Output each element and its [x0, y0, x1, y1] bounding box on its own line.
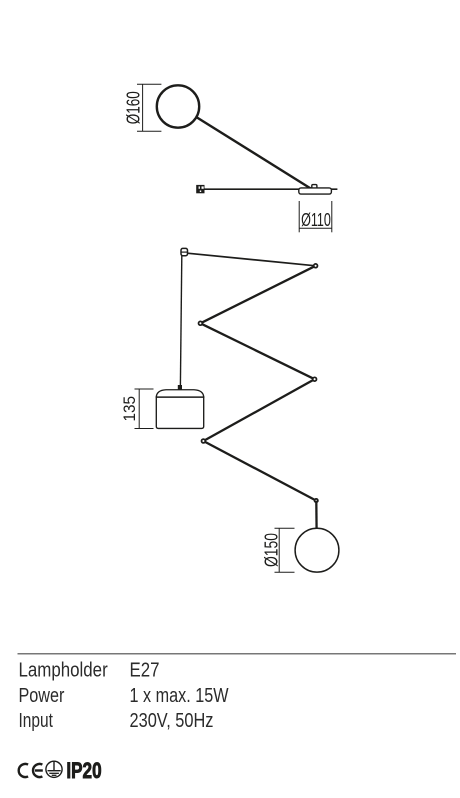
- canopy (top figure): [299, 188, 332, 194]
- svg-text:230V, 50Hz: 230V, 50Hz: [130, 710, 214, 732]
- node V4: [202, 439, 206, 443]
- svg-text:Ø110: Ø110: [301, 210, 331, 230]
- dimension 135 vertical line: [138, 389, 140, 429]
- hook (ceiling attachment): [181, 248, 188, 255]
- dimension 135 top tick: [135, 388, 154, 390]
- node V1: [314, 264, 318, 268]
- svg-text:Power: Power: [19, 685, 65, 707]
- lampshade drum body: [156, 397, 203, 428]
- svg-text:IP20: IP20: [66, 758, 101, 783]
- dimension Ø150 bottom tick: [275, 571, 295, 573]
- dimension 135 bottom tick: [135, 428, 154, 430]
- dimension Ø160 vertical line: [142, 84, 144, 131]
- bottom sphere: [295, 528, 339, 572]
- stem V5 to bottom sphere: [315, 501, 318, 530]
- earth symbol stem: [53, 762, 55, 771]
- zigzag wire V4-V5: [203, 441, 316, 501]
- svg-text:1 x max. 15W: 1 x max. 15W: [130, 685, 229, 707]
- cable hook to node V1: [187, 253, 315, 266]
- svg-text:Ø160: Ø160: [124, 91, 144, 124]
- sphere (top figure): [157, 85, 199, 127]
- CE mark letter C: [19, 764, 28, 777]
- earth symbol bar 3: [52, 774, 57, 776]
- node V5: [315, 499, 318, 502]
- svg-text:E27: E27: [130, 660, 160, 682]
- bump on canopy: [312, 185, 317, 189]
- dimension Ø150 vertical line: [278, 528, 280, 572]
- dimension Ø110 right extension line: [331, 201, 333, 232]
- zigzag wire V3-V4: [203, 379, 314, 441]
- svg-text:Input: Input: [19, 710, 54, 732]
- CE mark letter E: [33, 764, 42, 777]
- dimension Ø160 top tick: [137, 83, 161, 85]
- earth symbol bar 1: [48, 770, 61, 772]
- zigzag wire V2-V3: [200, 323, 314, 379]
- earth symbol bar 2: [49, 772, 59, 774]
- rod (top figure arm): [185, 110, 312, 189]
- dimension Ø110 line: [299, 227, 332, 229]
- node V2: [199, 321, 203, 325]
- zigzag wire V1-V2: [200, 266, 315, 324]
- node V3: [313, 377, 317, 381]
- earth symbol circle: [46, 761, 62, 777]
- vertical cable hook to shade: [180, 256, 181, 385]
- bar (top figure base): [198, 188, 337, 190]
- svg-text:Ø150: Ø150: [262, 533, 282, 567]
- footer rule: [18, 653, 457, 655]
- cable ferrule above shade: [178, 385, 182, 390]
- svg-text:Lampholder: Lampholder: [19, 660, 108, 682]
- lampshade drum dome: [156, 390, 203, 397]
- dimension Ø110 left extension line: [298, 201, 300, 232]
- dimension Ø160 bottom tick: [137, 130, 161, 132]
- dimension Ø150 top tick: [275, 527, 295, 529]
- svg-text:135: 135: [120, 396, 139, 422]
- clamp (bar left end): [196, 185, 204, 193]
